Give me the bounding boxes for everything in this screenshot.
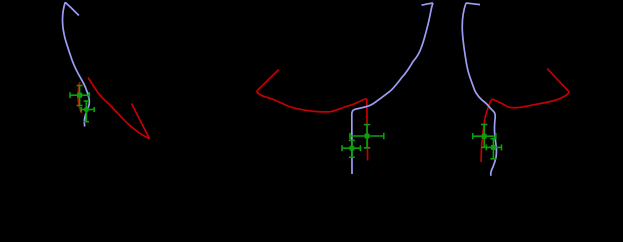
lavender trajectory curve panel 3 (apex, sweep down-right, curl down) [462,3,496,176]
lavender trajectory curve panel 1 [63,2,90,126]
lavender trajectory curve panel 2 (vertical, bend, rise to top-right apex) [352,3,433,174]
red trajectory curve panel 1 (main arc to lower-right cusp) [88,78,150,139]
lavender panel 1 apex barb [65,2,79,15]
green data point G1a panel 1 (error bars + dot) [70,86,89,106]
green data point G2b panel 2 (error bars + dot) [342,140,360,157]
red curve panel 1 short left branch behind green marker [78,82,82,113]
red trajectory curve panel 2 (arm into cusp, arc, vertical drop) [257,70,368,161]
lavender panel 3 apex barb [466,3,480,5]
green data point G3b panel 3 (error bars + dot) [486,139,501,159]
green data point G1b panel 1 (error bars + dot) [81,101,94,122]
green data point G3a panel 3 (error bars + dot) [473,125,496,148]
green data point G2a panel 2 (error bars + dot) [350,125,384,148]
red curve panel 1 return arm from cusp [132,104,150,139]
red trajectory curve panel 3 (arm, right vertex, arc back to cusp, down-left tail) [481,69,569,162]
lavender panel 2 apex barb [422,3,434,5]
